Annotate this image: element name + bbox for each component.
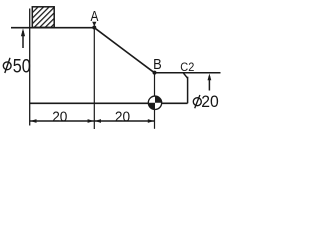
centre axis line (30, 102, 188, 104)
taper line A to B (94, 28, 154, 73)
workpiece left end face line (29, 9, 31, 126)
phi20 dimension text (193, 93, 219, 111)
top profile line (phi50 cylinder top) (11, 27, 94, 29)
svg-text:50: 50 (13, 55, 31, 77)
node A dot (92, 26, 96, 30)
bottom dimension line (30, 120, 155, 122)
extension line below B through origin symbol (154, 73, 156, 129)
phi20 dimension arrow (up) (208, 76, 210, 91)
svg-text:C2: C2 (180, 60, 194, 74)
svg-text:B: B (153, 56, 162, 73)
dimension arrow left (points left at end face) (30, 119, 36, 123)
chamfer C2 edge (183, 73, 187, 78)
right end face edge (187, 77, 189, 104)
extension line below A (93, 28, 95, 129)
arrowhead under A pointing to node A (92, 22, 96, 27)
workpiece origin symbol (quadrant circle) (148, 96, 161, 109)
phi50 dimension text (3, 55, 31, 77)
svg-text:20: 20 (52, 110, 67, 126)
dimension arrow right (points right at B extension) (148, 119, 154, 123)
node B dot (153, 71, 157, 75)
phi20 top line from B (with extension to the right) (155, 72, 221, 74)
chuck (hatched rectangle) (32, 7, 54, 28)
svg-text:20: 20 (115, 110, 130, 126)
svg-text:20: 20 (201, 93, 219, 111)
phi50 dimension arrow (up) (22, 31, 24, 48)
dimension arrows at A extension (88, 119, 94, 123)
